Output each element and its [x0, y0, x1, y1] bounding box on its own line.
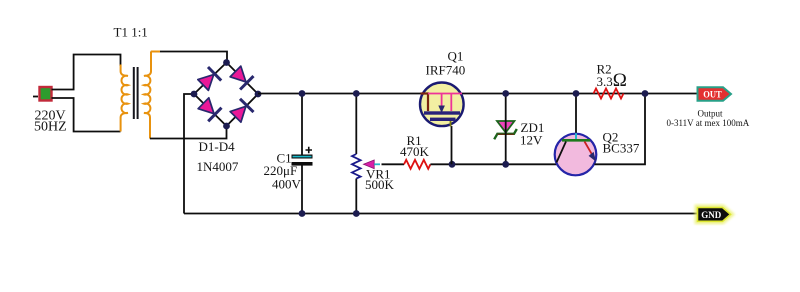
mosfet Q1 bottom bar	[430, 118, 456, 121]
svg-text:400V: 400V	[272, 176, 302, 191]
wire Q2 emitter to output branch	[595, 94, 646, 165]
transistor Q2 emitter diagonal	[585, 142, 592, 154]
mosfet Q1 internal drain lead	[428, 94, 462, 112]
wire VR1 branch	[355, 94, 357, 155]
transistor Q2 collector diagonal	[557, 142, 567, 163]
wire ZD1 branch	[505, 94, 507, 165]
zener ZD1	[494, 121, 517, 139]
node bridge bottom	[223, 123, 230, 130]
diode D1 top-left	[198, 67, 221, 90]
wire terminal top pin to primary top	[52, 55, 121, 90]
node C1 bottom	[299, 210, 306, 217]
svg-text:470K: 470K	[400, 144, 430, 159]
svg-text:50HZ: 50HZ	[34, 120, 67, 135]
wire ground bus	[184, 213, 698, 215]
svg-text:D1-D4: D1-D4	[199, 139, 236, 154]
wire main positive bus	[258, 93, 697, 95]
wire wiper to R1	[382, 163, 405, 165]
transistor Q2 body	[555, 134, 597, 176]
svg-text:500K: 500K	[365, 177, 395, 192]
node bridge top	[223, 59, 230, 66]
svg-text:3.3Ω: 3.3Ω	[597, 70, 627, 91]
diode D3 bottom-left	[198, 98, 221, 122]
svg-text:0-311V at mex 100mA: 0-311V at mex 100mA	[667, 118, 750, 128]
wire C1 branch	[301, 94, 303, 156]
resistor R1	[404, 160, 430, 169]
node C1 top	[299, 90, 306, 97]
mosfet Q1 body	[420, 83, 464, 127]
svg-text:12V: 12V	[520, 133, 543, 148]
transformer T1 core	[133, 67, 135, 119]
transformer T1 primary winding	[121, 65, 128, 132]
node VR1 top	[353, 90, 360, 97]
svg-text:Q1: Q1	[448, 49, 464, 64]
node emitter branch top	[642, 90, 649, 97]
wire R1 to mid rail	[430, 163, 557, 165]
svg-text:1N4007: 1N4007	[197, 159, 239, 174]
node ZD1 bottom	[502, 161, 509, 168]
bridge rectifier frame	[194, 63, 258, 127]
connector J1 220V input terminal	[33, 87, 52, 101]
svg-text:BC337: BC337	[603, 141, 640, 156]
wire secondary bottom to bridge bottom node	[150, 127, 227, 139]
wire Q1 source down	[451, 126, 453, 164]
transistor Q2 base bar	[562, 139, 590, 142]
node R1-Q1 junction	[449, 161, 456, 168]
transistor Q2 base lead inside	[575, 133, 577, 139]
node VR1 bottom	[353, 210, 360, 217]
diode D4 bottom-right	[230, 99, 253, 122]
mosfet Q1 gate lead	[421, 94, 429, 112]
diode D2 top-right	[230, 66, 253, 89]
svg-text:T1 1:1: T1 1:1	[114, 24, 148, 39]
output arrow OUT	[698, 87, 732, 101]
mosfet Q1 substrate arrow	[441, 94, 443, 106]
node ZD1 top	[502, 90, 509, 97]
resistor R2	[594, 89, 624, 99]
wire terminal bottom pin to primary bottom	[52, 98, 121, 132]
node bridge left	[191, 91, 198, 98]
node bridge right	[255, 91, 262, 98]
svg-text:OUT: OUT	[703, 90, 722, 100]
node Q2 top	[573, 90, 580, 97]
mosfet Q1 source lead inside	[450, 121, 452, 127]
svg-text:GND: GND	[701, 211, 721, 221]
ground arrow GND	[698, 208, 731, 222]
wire bridge left node to ground bus	[184, 94, 194, 214]
wire secondary top to bridge top node	[151, 52, 227, 62]
svg-text:IRF740: IRF740	[426, 63, 466, 78]
potentiometer VR1 wiper arrow	[364, 160, 375, 169]
capacitor C1	[292, 147, 313, 166]
wire Q2 collector branch	[575, 94, 577, 134]
transformer T1 secondary winding	[144, 52, 151, 139]
svg-text:Output: Output	[698, 108, 724, 118]
potentiometer VR1	[352, 154, 361, 179]
mosfet Q1 top bar	[424, 111, 460, 114]
